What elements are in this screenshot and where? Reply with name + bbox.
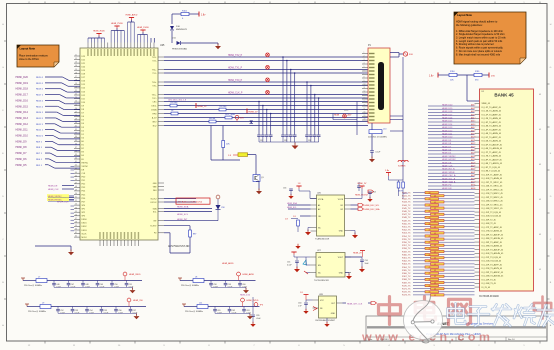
svg-text:TX2-: TX2- <box>152 60 156 62</box>
svg-text:43: 43 <box>429 224 431 226</box>
capacitor C32 <box>261 134 265 136</box>
svg-text:HDMI_D12: HDMI_D12 <box>442 130 453 132</box>
svg-text:HDMI_D9: HDMI_D9 <box>16 140 28 143</box>
capacitor C38 <box>293 134 297 136</box>
svg-text:IO_L12N_T1_MRCC_45: IO_L12N_T1_MRCC_45 <box>482 193 503 195</box>
svg-text:GND: GND <box>339 273 344 275</box>
svg-text:R153_TX: R153_TX <box>402 233 411 235</box>
svg-text:D2: D2 <box>82 130 84 132</box>
svg-text:CEC: CEC <box>153 101 158 103</box>
svg-text:GND: GND <box>331 313 336 315</box>
svg-text:20: 20 <box>75 87 77 89</box>
svg-text:R140_TX: R140_TX <box>402 192 411 194</box>
svg-text:HDMI_D20: HDMI_D20 <box>16 76 29 79</box>
svg-text:HDMI_PD: HDMI_PD <box>442 185 452 187</box>
svg-text:DDC_SDA: DDC_SDA <box>225 113 235 116</box>
resistor array row 28 <box>425 278 439 280</box>
P1 right pin wires to vertical <box>390 115 403 117</box>
svg-text:R164_TX: R164_TX <box>402 267 411 269</box>
net label HDMI_VSYNC highlighted <box>47 194 69 197</box>
svg-text:D22: D22 <box>82 59 85 61</box>
U26 OE wire <box>300 215 311 217</box>
svg-text:PD7: PD7 <box>82 201 86 203</box>
U25 bottom pin names <box>99 232 139 239</box>
power symbol HDMI_PVDD with comb to U25 top pins <box>114 25 119 27</box>
svg-text:AE36: AE36 <box>471 187 475 190</box>
svg-text:D17: D17 <box>82 77 85 79</box>
svg-text:IO_L14P_T2_SRCC_45: IO_L14P_T2_SRCC_45 <box>482 204 503 206</box>
svg-text:43: 43 <box>429 230 431 232</box>
svg-text:IO_L4N_T0_AD9N_45: IO_L4N_T0_AD9N_45 <box>482 132 502 135</box>
svg-text:43: 43 <box>429 199 431 201</box>
svg-text:56: 56 <box>75 214 77 216</box>
svg-text:43: 43 <box>434 270 436 272</box>
svg-text:SCLK: SCLK <box>82 233 88 235</box>
net label bank row 17 <box>428 159 475 161</box>
wire bead to cap C52 <box>371 134 373 150</box>
resistor array row 22 <box>425 260 439 262</box>
svg-text:AE12: AE12 <box>471 110 475 113</box>
capacitor C40 <box>309 134 313 136</box>
testpoint HDMI_PVDD <box>241 298 245 302</box>
svg-text:RD17 1: RD17 1 <box>36 95 44 97</box>
svg-text:D23: D23 <box>82 56 85 58</box>
capacitor C58 in L8 chain <box>210 281 212 283</box>
svg-text:AE16: AE16 <box>471 123 475 126</box>
svg-text:HDMI_D14: HDMI_D14 <box>16 111 29 114</box>
ground symbol below U25 <box>68 252 74 255</box>
power symbol HDMI_3VDD with comb to U25 top pins <box>96 33 101 35</box>
svg-text:HDMI_SDA: HDMI_SDA <box>177 206 189 209</box>
ground symbol near D11 <box>215 46 221 49</box>
resistor array row 18 <box>425 247 439 249</box>
svg-text:R148_TX: R148_TX <box>402 217 411 219</box>
capacitor C34 <box>269 134 273 136</box>
ferrite bead L8 <box>180 280 193 282</box>
svg-text:IO_L8N_T1_AD11N_45: IO_L8N_T1_AD11N_45 <box>482 162 502 165</box>
svg-text:HDMI_VSYNC: HDMI_VSYNC <box>442 156 456 158</box>
power symbol feeding L9 <box>26 304 28 307</box>
svg-text:AE14: AE14 <box>471 117 475 120</box>
svg-text:VSYNC: VSYNC <box>82 166 89 168</box>
net label bank row 13 <box>428 147 475 149</box>
testpoint 5V0 red circle <box>235 115 239 119</box>
svg-text:AE15: AE15 <box>471 120 475 123</box>
wire divider tap down to BANK45 VREF <box>466 75 468 101</box>
svg-text:43: 43 <box>434 239 436 241</box>
testpoint HDMI_3VDD <box>123 272 127 276</box>
svg-text:SP2: SP2 <box>82 212 86 214</box>
transistor Q1 (boxed) <box>253 175 260 182</box>
svg-text:220 Ohm @ 100MHz: 220 Ohm @ 100MHz <box>181 285 199 287</box>
svg-text:R147_TX: R147_TX <box>402 214 411 216</box>
svg-text:R143_TX: R143_TX <box>402 202 411 204</box>
svg-text:RD9 1: RD9 1 <box>36 141 43 143</box>
svg-text:IO_L8P_T1_AD11P_45: IO_L8P_T1_AD11P_45 <box>482 158 502 161</box>
net label bank row 19 <box>428 166 475 168</box>
resistor array row 11 <box>431 226 445 228</box>
svg-text:HDMI_D6: HDMI_D6 <box>16 158 28 161</box>
svg-text:IO_L20N_T3_AD14N_45: IO_L20N_T3_AD14N_45 <box>482 252 504 255</box>
capacitor C62 in L11 chain <box>229 307 231 309</box>
svg-text:VCCA: VCCA <box>318 198 324 201</box>
power symbol feeding L11 <box>183 304 185 307</box>
left dangling stub rows <box>71 166 75 230</box>
svg-text:D8: D8 <box>82 109 84 111</box>
capacitor C36 <box>285 134 289 136</box>
svg-text:IO_L11P_T1_SRCC_45: IO_L11P_T1_SRCC_45 <box>482 182 503 184</box>
wire DDC_SCL row with series resistor R102 <box>164 105 170 107</box>
common ground rail for coupling caps <box>259 141 319 143</box>
connector P1 HDMI receptacle body <box>368 48 390 123</box>
U25 bottom pin stubs <box>100 240 139 246</box>
svg-text:1.8: 1.8 <box>293 216 296 218</box>
svg-text:17: 17 <box>75 76 77 78</box>
svg-text:IO_L18N_T2_AD13N_45: IO_L18N_T2_AD13N_45 <box>482 237 504 240</box>
svg-text:VREF_45: VREF_45 <box>482 103 490 105</box>
svg-text:13: 13 <box>75 62 77 64</box>
svg-text:43: 43 <box>539 234 541 236</box>
svg-text:43: 43 <box>429 273 431 275</box>
svg-text:ADV7511KSTZ-ND: ADV7511KSTZ-ND <box>168 245 190 248</box>
svg-text:HDMI_D18: HDMI_D18 <box>16 88 29 91</box>
capacitor C48 in L7 chain <box>82 281 84 283</box>
svg-text:A5V: A5V <box>348 113 352 116</box>
ferrite bead L9 <box>27 306 40 308</box>
svg-text:IO_L17N_T2_AD5N_45: IO_L17N_T2_AD5N_45 <box>482 230 503 233</box>
svg-text:D5: D5 <box>82 120 84 122</box>
svg-text:12: 12 <box>75 58 77 60</box>
svg-text:A1: A1 <box>318 204 320 207</box>
svg-text:HDMI_SDA_A: HDMI_SDA_A <box>442 181 456 184</box>
svg-text:HDMI_SCL: HDMI_SCL <box>287 207 297 209</box>
wire row with resistor R106 and 5V0 testpoint <box>164 121 209 123</box>
svg-text:D21: D21 <box>82 63 85 65</box>
U25 right pin names <box>150 57 157 235</box>
HPD sense vertical wires near P1 <box>356 102 358 136</box>
net label bank row 11 <box>428 140 475 142</box>
svg-text:HDMI_TX0_P: HDMI_TX0_P <box>228 80 243 82</box>
svg-text:IO_L22N_T3_AD7N_45: IO_L22N_T3_AD7N_45 <box>482 267 503 270</box>
resistor array row 21 <box>431 257 445 259</box>
svg-text:43: 43 <box>429 217 431 219</box>
svg-text:IO_L5P_T0_AD2P_45: IO_L5P_T0_AD2P_45 <box>482 136 501 139</box>
net label bank row 0 <box>428 105 475 107</box>
resistor R111 <box>474 73 482 76</box>
ground rail of L8 chain <box>211 286 240 288</box>
svg-text:54: 54 <box>75 207 77 209</box>
svg-text:SP0: SP0 <box>82 205 86 207</box>
svg-text:IO_L17P_T2_AD5P_45: IO_L17P_T2_AD5P_45 <box>482 226 502 229</box>
svg-text:HDMI_D15: HDMI_D15 <box>16 105 29 108</box>
svg-text:27: 27 <box>75 111 77 113</box>
svg-text:D9: D9 <box>82 106 84 108</box>
ground rail of L11 chain <box>215 312 244 314</box>
svg-text:E1: E1 <box>82 145 84 147</box>
zener diode D10 MMSZ4678 <box>170 26 174 30</box>
ground symbol end of L11 chain <box>247 316 253 319</box>
svg-text:45: 45 <box>75 175 77 177</box>
svg-text:IO_L9N_T1_DQS_45: IO_L9N_T1_DQS_45 <box>482 171 501 173</box>
net label bank row 16 <box>428 156 475 158</box>
svg-text:TLV70018DCKR: TLV70018DCKR <box>314 280 329 282</box>
svg-text:SP3: SP3 <box>82 216 86 218</box>
resistor R101 <box>181 12 189 15</box>
svg-text:HDMI_TX1_P: HDMI_TX1_P <box>228 68 243 70</box>
svg-text:D11: D11 <box>82 98 85 100</box>
svg-text:IO_L9P_T1_DQS_45: IO_L9P_T1_DQS_45 <box>482 167 500 169</box>
svg-text:DSDA: DSDA <box>151 108 157 111</box>
blue highlight marker near C55 <box>303 260 307 265</box>
ferrite bead L11 <box>184 306 197 308</box>
P1 internal receptacle slot <box>378 62 384 110</box>
svg-text:AE29: AE29 <box>471 165 475 168</box>
net label bank row 15 <box>428 153 475 155</box>
U25 left pin numbers <box>75 55 77 238</box>
svg-text:43: 43 <box>434 227 436 229</box>
svg-text:R172_TX: R172_TX <box>402 292 411 294</box>
capacitor C53 in L9 chain <box>72 307 74 309</box>
power symbols above U26 <box>296 185 301 187</box>
svg-text:HDMI_SCL: HDMI_SCL <box>177 214 189 216</box>
svg-text:HDMI_D9: HDMI_D9 <box>442 140 452 142</box>
grounds around U26 <box>305 232 311 235</box>
svg-text:43: 43 <box>434 276 436 278</box>
svg-text:C58: C58 <box>221 207 224 209</box>
svg-text:HDMI_HSYNC: HDMI_HSYNC <box>442 159 456 161</box>
svg-text:R162_TX: R162_TX <box>402 261 411 263</box>
title block outline <box>366 316 547 341</box>
svg-text:IO_L16P_T2_45: IO_L16P_T2_45 <box>482 219 496 221</box>
svg-text:HDMI_TX2_P: HDMI_TX2_P <box>228 55 243 57</box>
resistor array row 7 <box>431 213 445 215</box>
resistor R107 vertical 10K <box>222 141 225 148</box>
ground symbol end of L8 chain <box>243 290 249 293</box>
svg-text:29: 29 <box>75 119 77 121</box>
svg-text:19: 19 <box>75 83 77 85</box>
resistor array row 27 <box>431 275 445 277</box>
ferrite bead L10 <box>369 130 382 134</box>
svg-text:R168_TX: R168_TX <box>402 279 411 281</box>
svg-text:43: 43 <box>434 214 436 216</box>
wire HPD row with resistor R104 <box>164 113 171 115</box>
capacitor C33 <box>265 134 269 136</box>
svg-text:SP1: SP1 <box>82 209 86 211</box>
svg-text:750 100: 750 100 <box>219 106 227 108</box>
svg-text:RD20 1: RD20 1 <box>36 77 44 79</box>
svg-text:HDMI_2V0: HDMI_2V0 <box>133 300 144 302</box>
ferrite bead L7 <box>23 280 36 282</box>
svg-text:IO_L12P_T1_MRCC_45: IO_L12P_T1_MRCC_45 <box>482 189 503 191</box>
svg-text:HDMI_SDA: HDMI_SDA <box>287 202 298 205</box>
svg-text:43: 43 <box>429 292 431 294</box>
svg-text:43: 43 <box>434 258 436 260</box>
svg-text:RD6 1: RD6 1 <box>36 159 43 161</box>
testpoint HDMI_AVDD <box>237 272 241 276</box>
IC U28 oscillator body <box>319 296 337 318</box>
port arrows right of U26 <box>351 204 359 206</box>
svg-text:51: 51 <box>75 197 77 199</box>
EN tie <box>306 264 310 266</box>
svg-text:43: 43 <box>539 164 541 166</box>
svg-text:GND: GND <box>339 231 344 233</box>
svg-text:43: 43 <box>434 208 436 210</box>
svg-text:43: 43 <box>429 279 431 281</box>
ground symbol end of L7 chain <box>130 290 136 293</box>
svg-text:IO_L13N_T2_MRCC_45: IO_L13N_T2_MRCC_45 <box>482 201 503 203</box>
resistor array row 1 <box>431 195 445 197</box>
cap and port HDMI_5V0OUT <box>357 185 361 187</box>
layout note (left): place termination resistors close to the FPGA <box>17 45 59 67</box>
red coil NO_PADS symbol <box>398 160 408 162</box>
capacitor C39 <box>305 134 309 136</box>
svg-text:IO_L21P_T3_DQS_45: IO_L21P_T3_DQS_45 <box>482 257 502 259</box>
capacitor C50 in L7 chain <box>111 281 113 283</box>
BANK 45 left pin stubs <box>475 103 480 287</box>
svg-text:HDMI_DDC_SDA: HDMI_DDC_SDA <box>365 208 381 211</box>
vertical wires dropping to coupling caps <box>259 57 319 135</box>
svg-text:HDMI_D7: HDMI_D7 <box>442 146 452 148</box>
capacitor C63 in L11 chain <box>243 307 245 309</box>
svg-text:R151_TX: R151_TX <box>402 227 411 229</box>
ground below P1 <box>369 159 375 162</box>
svg-text:IO_L23N_T3_AD15N_45: IO_L23N_T3_AD15N_45 <box>482 275 504 278</box>
svg-text:43: 43 <box>434 264 436 266</box>
svg-text:HDMI_2V: HDMI_2V <box>358 183 367 185</box>
svg-text:HDMI_D17: HDMI_D17 <box>16 94 29 97</box>
svg-text:D20: D20 <box>82 66 85 68</box>
wire pair HDMI_CLK_P from U25 to P1 <box>164 94 368 96</box>
svg-text:R155_TX: R155_TX <box>402 239 411 241</box>
resistor array row 15 <box>431 238 445 240</box>
svg-text:HDMI_INT_N: HDMI_INT_N <box>442 169 455 171</box>
svg-text:AE20: AE20 <box>471 136 475 139</box>
resistor array row 3 <box>431 201 445 203</box>
svg-text:32: 32 <box>75 129 77 131</box>
svg-text:IO_L3P_T0_AD1P_45: IO_L3P_T0_AD1P_45 <box>482 121 501 124</box>
svg-text:IO_25_45: IO_25_45 <box>482 287 491 289</box>
svg-text:U25: U25 <box>160 44 165 47</box>
svg-text:HDMI_D17: HDMI_D17 <box>442 114 453 116</box>
svg-text:IO_L10N_T1_AD4N_45: IO_L10N_T1_AD4N_45 <box>482 177 503 180</box>
wire from U25 bottom-left to ground <box>35 245 71 247</box>
svg-text:AE17: AE17 <box>471 126 475 129</box>
svg-text:59: 59 <box>75 225 77 227</box>
capacitor C54 <box>368 191 372 193</box>
svg-text:C55: C55 <box>287 262 290 264</box>
svg-text:D19: D19 <box>82 70 85 72</box>
testpoint stem with diode near SDA/SCL <box>217 199 219 221</box>
svg-text:R158_TX: R158_TX <box>402 248 411 250</box>
power symbol HDMI_AVDD with comb to U25 top pins <box>129 17 134 19</box>
svg-text:HDMI_D16: HDMI_D16 <box>16 99 29 102</box>
svg-text:43: 43 <box>429 236 431 238</box>
svg-text:43: 43 <box>429 267 431 269</box>
capacitor C61 in L11 chain <box>214 307 216 309</box>
U25 left pin stubs <box>74 56 80 237</box>
title block bottom row <box>366 336 547 338</box>
svg-text:HDMI_D19: HDMI_D19 <box>16 82 29 85</box>
diff pair marker HDMI_TX2_P <box>266 53 270 57</box>
wire INT row <box>164 220 218 222</box>
svg-text:220 Ohm @ 100MHz: 220 Ohm @ 100MHz <box>185 311 203 313</box>
svg-text:43: 43 <box>539 129 541 131</box>
svg-text:IO_L7P_T1_AD3P_45: IO_L7P_T1_AD3P_45 <box>482 151 501 154</box>
NC ground left <box>306 272 310 274</box>
svg-text:IO_L18P_T2_AD13P_45: IO_L18P_T2_AD13P_45 <box>482 233 503 236</box>
resistor array row 25 <box>431 269 445 271</box>
svg-text:IO_L3N_T0_AD1N_45: IO_L3N_T0_AD1N_45 <box>482 125 502 128</box>
svg-text:AE33: AE33 <box>471 177 475 180</box>
P1 right-side utility vertical wire <box>402 57 404 180</box>
svg-text:43: 43 <box>434 245 436 247</box>
svg-text:PD5: PD5 <box>82 194 86 196</box>
svg-text:47: 47 <box>75 182 77 184</box>
svg-text:R142_TX: R142_TX <box>402 199 411 201</box>
svg-text:43: 43 <box>429 242 431 244</box>
capacitor C57 in L9 chain <box>130 307 132 309</box>
svg-text:HDMI_DE: HDMI_DE <box>442 162 452 164</box>
net label bank row 21 <box>428 172 475 174</box>
svg-text:AE23: AE23 <box>471 145 475 148</box>
power symbol feeding L8 <box>179 278 181 281</box>
svg-text:CEC DDC_SCL 1.8: CEC DDC_SCL 1.8 <box>168 99 187 101</box>
capacitor C60 in L8 chain <box>239 281 241 283</box>
title block logo band <box>367 326 546 328</box>
svg-text:43: 43 <box>429 286 431 288</box>
watermark: ghost blue outline characters dian zi fa shao you <box>448 304 554 327</box>
wire pair HDMI_TX2_P from U25 to P1 <box>164 56 368 58</box>
svg-text:560 68: 560 68 <box>209 118 216 120</box>
capacitor C35 <box>281 134 285 136</box>
resistor array row 9 <box>431 219 445 221</box>
TVS diode D11 PESD5V0S1BA <box>177 41 181 45</box>
net label bank row 1 <box>428 108 475 110</box>
capacitor C56 in L9 chain <box>115 307 117 309</box>
svg-text:wired: wired <box>344 110 348 112</box>
svg-text:INT2: INT2 <box>152 121 156 123</box>
svg-text:61: 61 <box>75 232 77 234</box>
resistor array row 23 <box>431 263 445 265</box>
svg-text:43: 43 <box>434 282 436 284</box>
net label bank row 26 <box>428 188 475 190</box>
svg-text:TP3: TP3 <box>260 305 263 307</box>
capacitor C52 <box>370 150 374 152</box>
svg-text:HDMI_D7: HDMI_D7 <box>16 152 28 155</box>
capacitor C47 in L7 chain <box>68 281 70 283</box>
svg-text:HDMI_D5: HDMI_D5 <box>442 153 452 155</box>
watermark: circle logo <box>404 296 443 343</box>
net label bank row 24 <box>428 182 475 184</box>
svg-text:HPD: HPD <box>153 113 158 115</box>
svg-text:DSD2: DSD2 <box>82 226 87 228</box>
svg-text:D6: D6 <box>82 116 84 118</box>
IC U27 LDO body <box>316 253 345 278</box>
svg-text:HDMI_D8: HDMI_D8 <box>16 146 28 149</box>
svg-text:43: 43 <box>429 211 431 213</box>
svg-text:R149_TX: R149_TX <box>402 220 411 222</box>
svg-text:A2: A2 <box>318 208 320 211</box>
svg-text:IO_L21N_T3_DQS_45: IO_L21N_T3_DQS_45 <box>482 261 502 263</box>
svg-text:R156_TX: R156_TX <box>402 242 411 244</box>
svg-text:D0: D0 <box>82 137 84 139</box>
capacitor C49 in L7 chain <box>97 281 99 283</box>
resistor array row 31 <box>431 288 445 290</box>
red arrow into U28 XE <box>313 307 317 311</box>
svg-text:R141_TX: R141_TX <box>402 196 411 198</box>
ground for U28 GND <box>326 318 328 323</box>
svg-text:50: 50 <box>75 193 77 195</box>
